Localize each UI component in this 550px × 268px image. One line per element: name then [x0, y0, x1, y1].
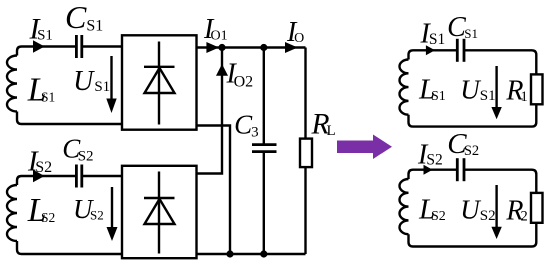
wire: C3 upper lead — [263, 48, 265, 145]
wire: right loop2 top rail — [409, 170, 458, 179]
diode D1 — [144, 42, 175, 125]
capacitor CS1 plates (right) — [457, 39, 464, 62]
wire: right loop1 top rail — [409, 50, 458, 59]
wire: output top rail — [197, 46, 306, 48]
arrow: IO2 current — [216, 64, 228, 76]
wire: loop2 left bottom segment — [17, 241, 122, 254]
wire: rectifier 1 negative output to bottom rail — [197, 126, 231, 255]
arrow: IS2 current (right) — [424, 165, 433, 175]
wire: right loop2 top rail cap-to-corner — [464, 170, 536, 193]
arrow: IS2 current — [33, 170, 45, 183]
node: bottom junction 1 — [226, 250, 233, 257]
capacitor CS2 plates — [76, 165, 81, 188]
wire: loop1 top rail cap-to-box segment — [82, 45, 122, 47]
wire: loop1 left bottom segment — [17, 112, 122, 125]
arrow: IS1 current (right) — [426, 45, 435, 55]
arrow: IS1 current — [33, 40, 45, 53]
rectifier box 1 — [122, 35, 197, 129]
resistor RL body — [300, 139, 312, 168]
wire: RL upper lead — [304, 48, 306, 139]
node: top junction 1 — [218, 44, 225, 51]
arrow: IO1 current — [206, 42, 219, 53]
wire: bottom output rail — [197, 253, 306, 255]
node: top junction 2 — [260, 44, 267, 51]
wire: loop2 top rail cap-to-box segment — [82, 175, 122, 177]
wire: right loop1 bottom rail — [409, 104, 537, 126]
resistor R2 body — [531, 193, 543, 223]
capacitor C3 plates — [252, 145, 277, 152]
wire: C3 lower lead — [263, 152, 265, 254]
inductor LS2 coil — [7, 185, 17, 241]
wire: loop1 top rail left segment — [17, 47, 76, 56]
arrow: US1 voltage — [106, 56, 116, 113]
node: bottom junction 2 — [260, 250, 267, 257]
wire: IO2 vertical from node to rectifier 2 output — [197, 48, 223, 174]
capacitor CS2 plates (right) — [457, 158, 464, 181]
arrow: IO current — [285, 42, 298, 53]
rectifier box 2 — [122, 166, 197, 258]
wire: right loop2 bottom rail — [409, 223, 537, 247]
arrow: US2 voltage (right) — [491, 185, 501, 239]
inductor LS2 coil (right) — [399, 179, 408, 234]
arrow: US2 voltage — [107, 187, 118, 241]
capacitor CS1 plates — [76, 35, 81, 58]
resistor R1 body — [531, 74, 543, 104]
wire: right loop1 top rail cap-to-corner — [464, 50, 536, 74]
inductor LS1 coil — [7, 56, 17, 112]
diode D2 — [144, 172, 175, 254]
inductor LS1 coil (right) — [399, 60, 408, 115]
wire: RL lower lead — [304, 167, 306, 254]
arrow: US1 voltage (right) — [491, 66, 501, 119]
wire: loop2 top rail left segment — [17, 176, 76, 185]
arrow: equivalence (purple) — [337, 135, 392, 160]
